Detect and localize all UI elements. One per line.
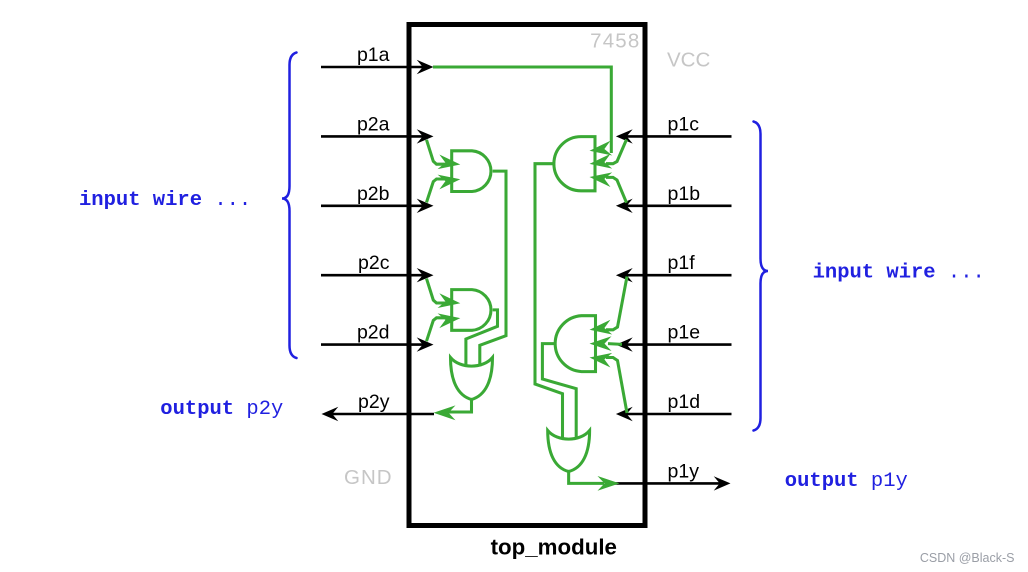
svg-text:p2d: p2d <box>357 322 390 344</box>
svg-text:p2a: p2a <box>357 113 390 135</box>
svg-text:p1e: p1e <box>668 322 701 344</box>
svg-text:p1b: p1b <box>668 183 701 205</box>
svg-text:p1a: p1a <box>357 44 390 66</box>
svg-text:7458: 7458 <box>590 30 640 53</box>
svg-text:output p2y: output p2y <box>160 398 283 421</box>
svg-text:top_module: top_module <box>491 535 617 560</box>
svg-text:p1f: p1f <box>668 252 696 274</box>
svg-text:p2b: p2b <box>357 183 390 205</box>
svg-text:p1y: p1y <box>668 460 700 482</box>
svg-text:p2c: p2c <box>358 252 390 274</box>
svg-text:p1d: p1d <box>668 391 701 413</box>
svg-text:VCC: VCC <box>667 49 710 72</box>
svg-text:output p1y: output p1y <box>785 470 908 493</box>
svg-text:GND: GND <box>344 466 393 489</box>
svg-text:p2y: p2y <box>358 391 390 413</box>
svg-text:input wire ...: input wire ... <box>79 189 251 212</box>
svg-text:input wire ...: input wire ... <box>813 262 985 285</box>
svg-text:p1c: p1c <box>668 113 700 135</box>
svg-text:CSDN @Black-S: CSDN @Black-S <box>920 551 1015 565</box>
